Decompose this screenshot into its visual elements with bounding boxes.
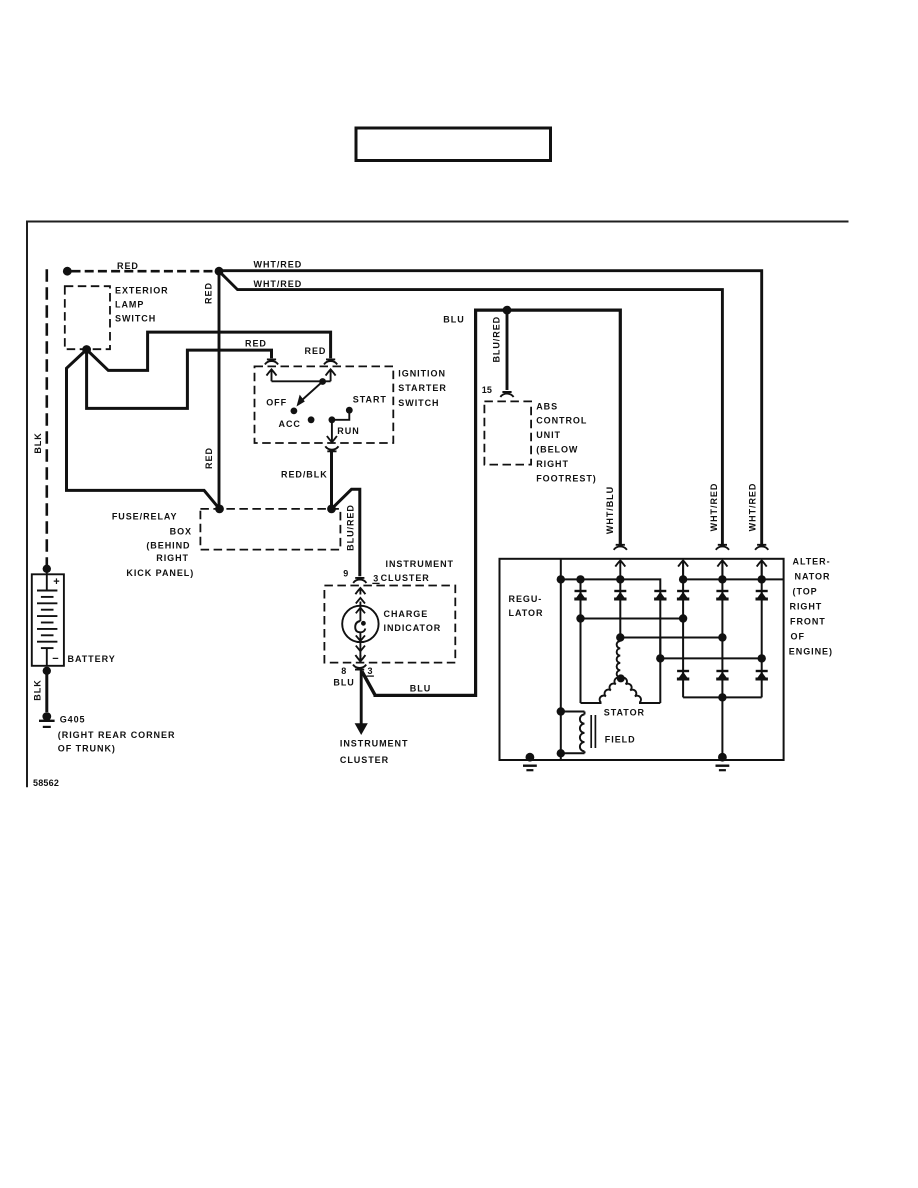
wire BLK battery negative [43, 667, 51, 712]
svg-text:RED: RED [305, 346, 327, 356]
connector hook ign input [324, 359, 337, 364]
wire regulator rail [560, 559, 562, 760]
svg-text:RIGHT: RIGHT [156, 553, 189, 563]
label RUN [337, 426, 359, 436]
wire stator right lead [639, 702, 660, 704]
wire branch A [580, 579, 582, 703]
arrow ign input [326, 369, 336, 381]
wire RED to ignition switch battery contact (upper) [87, 332, 331, 370]
svg-text:INSTRUMENT: INSTRUMENT [340, 739, 409, 749]
pin 15 label [482, 385, 492, 395]
svg-text:BATTERY: BATTERY [68, 654, 116, 664]
pin 3 label lower (underlined) [367, 666, 374, 676]
wire BLK dashed (battery to junction) [45, 269, 48, 566]
svg-text:STARTER: STARTER [398, 383, 446, 393]
field coil [561, 712, 585, 754]
contact RUN [329, 416, 336, 423]
svg-text:BLU/RED: BLU/RED [492, 316, 502, 363]
wire BLU (cluster pin 3 to alternator) [362, 310, 620, 695]
svg-text:UNIT: UNIT [536, 430, 561, 440]
svg-text:INSTRUMENT: INSTRUMENT [386, 559, 455, 569]
arrow acc input [267, 369, 277, 381]
wire RED/BLK [330, 451, 333, 509]
svg-text:+: + [53, 576, 59, 588]
ground G405 [39, 712, 55, 727]
wire output bus right (top) [683, 578, 784, 580]
connector hook cluster pin 3 [353, 578, 366, 583]
diagram number 58562 [33, 778, 59, 788]
wire branch E [721, 560, 723, 753]
svg-text:WHT/RED: WHT/RED [747, 483, 757, 532]
svg-text:−: − [52, 653, 58, 665]
wire switch crossbar [272, 380, 331, 382]
svg-text:WHT/RED: WHT/RED [254, 279, 303, 289]
svg-text:RED/BLK: RED/BLK [281, 469, 328, 479]
charge indicator lamp circle [342, 606, 378, 642]
label BATTERY [68, 654, 116, 664]
label ALTERNATOR (TOP RIGHT FRONT OF ENGINE) [789, 556, 833, 656]
svg-text:OFF: OFF [266, 397, 287, 407]
svg-text:REGU-: REGU- [509, 594, 543, 604]
node bus4 F [758, 654, 766, 662]
label WHT/RED (right riser) [747, 483, 757, 532]
pin 9 label [343, 569, 348, 579]
node bus2 A [576, 614, 584, 622]
diode F2 (exciter) [756, 671, 768, 679]
node BLU/RED tap [503, 306, 512, 315]
node switch pivot [319, 378, 326, 385]
diode C (positive) [654, 591, 666, 599]
label G405 (RIGHT REAR CORNER OF TRUNK) [58, 715, 176, 754]
svg-text:ALTER-: ALTER- [793, 556, 831, 566]
svg-text:FUSE/RELAY: FUSE/RELAY [112, 512, 178, 522]
diode D2 (exciter) [677, 671, 689, 679]
arrow cluster output [355, 655, 365, 661]
svg-text:3: 3 [368, 666, 373, 676]
node fuse box left feed [215, 505, 224, 514]
svg-text:FOOTREST): FOOTREST) [536, 473, 597, 483]
page border [27, 222, 849, 788]
node rail-bus [557, 575, 565, 583]
label ABS CONTROL UNIT (BELOW RIGHT FOOTREST) [536, 401, 597, 483]
svg-text:IGNITION: IGNITION [398, 368, 446, 378]
flow chevron down 2 [356, 646, 365, 652]
svg-text:8: 8 [341, 666, 346, 676]
label BLU (below pin 8) [333, 678, 354, 688]
label BLK (lower) [33, 679, 43, 700]
label INSTRUMENT CLUSTER (component name) [381, 559, 454, 583]
svg-text:LAMP: LAMP [115, 300, 144, 310]
node bus4 C [656, 654, 664, 662]
wire BLU/RED (to instrument cluster pin 3) [332, 489, 360, 576]
svg-text:KICK PANEL): KICK PANEL) [126, 568, 194, 578]
svg-text:WHT/RED: WHT/RED [254, 260, 303, 270]
svg-text:ACC: ACC [279, 419, 301, 429]
svg-text:58562: 58562 [33, 778, 59, 788]
label BLK (upper) [33, 432, 43, 453]
wire WHT/RED lower (to alternator middle branch) [219, 271, 722, 545]
node fuse box right feed [327, 505, 336, 514]
svg-text:INDICATOR: INDICATOR [384, 623, 442, 633]
svg-text:OF: OF [791, 631, 805, 641]
field core lines [591, 715, 595, 748]
node bus3 B [616, 633, 624, 641]
label CHARGE INDICATOR [384, 609, 442, 633]
wire RED to ignition switch acc contact (lower) [87, 350, 272, 409]
label INSTRUMENT CLUSTER (off-page destination) [340, 739, 409, 765]
arrow alternator input F [757, 560, 767, 579]
node field bottom [557, 749, 565, 757]
svg-text:RED: RED [117, 261, 139, 271]
battery plates [37, 591, 57, 666]
node bus F [758, 575, 766, 583]
svg-text:RED: RED [204, 447, 214, 469]
wire bus A-D [581, 618, 684, 620]
svg-text:ENGINE): ENGINE) [789, 646, 833, 656]
arrow cluster input [355, 588, 365, 595]
svg-text:START: START [353, 395, 387, 405]
battery box [32, 569, 64, 666]
svg-text:(RIGHT REAR CORNER: (RIGHT REAR CORNER [58, 730, 176, 740]
svg-text:BLU: BLU [410, 683, 431, 693]
svg-text:CLUSTER: CLUSTER [381, 573, 430, 583]
contact START [346, 407, 353, 414]
svg-text:BLU: BLU [443, 315, 464, 325]
connector hook alternator WHT/RED right [755, 545, 768, 550]
label OFF [266, 397, 287, 407]
connector hook alternator WHT/BLU [614, 545, 627, 550]
diode B (positive) [614, 591, 626, 599]
label ACC [279, 419, 301, 429]
flow chevron down 1 (inside lamp) [356, 635, 365, 641]
wire to fuse/relay box (left) [67, 350, 220, 509]
node battery positive splice [43, 565, 51, 573]
ground (alternator case) [716, 753, 730, 770]
alternator box [500, 559, 784, 760]
label RED (acc feed) [245, 338, 267, 348]
wire lamp lead upper [359, 602, 361, 622]
svg-text:BLU/RED: BLU/RED [345, 504, 355, 551]
svg-text:CLUSTER: CLUSTER [340, 755, 389, 765]
contact OFF [291, 408, 298, 415]
wire branch B [619, 579, 621, 637]
wire stator bus left (top) [561, 579, 661, 658]
svg-text:WHT/BLU: WHT/BLU [605, 486, 615, 534]
svg-text:EXTERIOR: EXTERIOR [115, 286, 169, 296]
stator coil right [621, 678, 641, 703]
wire bus C-F [660, 657, 761, 659]
wire branch F [761, 560, 763, 697]
svg-text:BLK: BLK [33, 679, 43, 700]
node bus3 E [718, 633, 726, 641]
connector hook acc input [265, 359, 278, 364]
fuse/relay box [200, 509, 340, 550]
label FIELD [605, 735, 636, 745]
wire bottom bus D-F [683, 696, 762, 698]
wire bus B-E [620, 637, 722, 639]
wire lamp lead lower [359, 632, 361, 662]
arrow alternator input D [678, 560, 688, 579]
node bus2 D [679, 614, 687, 622]
ignition starter switch box [255, 366, 394, 443]
node splice at dashed RED wire left end [63, 267, 72, 276]
node bus B [616, 575, 624, 583]
connector hook cluster pin 8 [353, 665, 366, 670]
label BLU (horizontal run) [410, 683, 431, 693]
node bus D [679, 575, 687, 583]
flow chevron up 2 [356, 598, 365, 604]
label START [353, 395, 387, 405]
connector hook run output [325, 446, 338, 451]
svg-text:(TOP: (TOP [793, 586, 818, 596]
arrow alternator input B [615, 560, 625, 579]
svg-text:9: 9 [343, 569, 348, 579]
diode D (positive) [677, 591, 689, 599]
label EXTERIOR LAMP SWITCH [115, 286, 169, 324]
svg-text:NATOR: NATOR [795, 571, 831, 581]
svg-text:WHT/RED: WHT/RED [709, 483, 719, 532]
svg-text:RIGHT: RIGHT [536, 459, 569, 469]
wire stator left lead [581, 702, 602, 704]
svg-text:BLU: BLU [333, 678, 354, 688]
svg-text:15: 15 [482, 385, 492, 395]
switch lever with arrowhead [297, 382, 323, 407]
svg-text:RED: RED [245, 338, 267, 348]
label IGNITION STARTER SWITCH [398, 368, 446, 408]
connector hook alternator WHT/RED middle [716, 545, 729, 550]
svg-text:BLK: BLK [33, 432, 43, 453]
label BLU/RED (cluster) [345, 504, 355, 551]
wire branch D [682, 560, 684, 697]
battery polarity marks [52, 576, 59, 665]
label RED (vertical upper) [204, 282, 214, 304]
node bus A [576, 575, 584, 583]
label WHT/RED (lower) [254, 279, 303, 289]
diode E2 (exciter) [716, 671, 728, 679]
label WHT/RED (upper) [254, 260, 303, 270]
svg-text:ABS: ABS [536, 401, 558, 411]
svg-text:LATOR: LATOR [509, 608, 544, 618]
wire START to RUN [332, 410, 349, 420]
label RED (ign feed) [305, 346, 327, 356]
ground (regulator, inside alternator) [523, 753, 537, 770]
node stator center [617, 674, 625, 682]
pin 8 label [341, 666, 346, 676]
wire WHT/RED upper (to alternator right branch) [219, 271, 762, 545]
label WHT/RED (middle riser) [709, 483, 719, 532]
contact ACC [308, 416, 315, 423]
wire RED vertical (to fuse/relay box) [218, 271, 221, 509]
svg-text:RIGHT: RIGHT [790, 601, 823, 611]
svg-text:(BEHIND: (BEHIND [146, 540, 190, 550]
node field top [557, 707, 565, 715]
wire BLU/RED to ABS pin 15 [506, 310, 509, 390]
label WHT/BLU [605, 486, 615, 534]
svg-text:FIELD: FIELD [605, 735, 636, 745]
stator coil left [600, 678, 621, 703]
pin 3 label (underlined) [372, 574, 379, 584]
svg-text:BOX: BOX [170, 526, 192, 536]
label FUSE/RELAY BOX (BEHIND RIGHT KICK PANEL) [112, 512, 194, 578]
diode F (positive) [756, 591, 768, 599]
diode E (positive) [716, 591, 728, 599]
ABS control unit box [484, 401, 531, 464]
svg-text:SWITCH: SWITCH [115, 314, 156, 324]
node bus E [718, 575, 726, 583]
svg-text:(BELOW: (BELOW [536, 445, 578, 455]
label REGULATOR [509, 594, 544, 618]
svg-text:G405: G405 [60, 715, 86, 725]
diode A (positive) [574, 591, 586, 599]
instrument cluster box [324, 586, 455, 663]
wire RED dashed [72, 270, 220, 273]
label RED (dashed wire) [117, 261, 139, 271]
connector hook ABS pin 15 [500, 392, 513, 397]
svg-text:CONTROL: CONTROL [536, 416, 587, 426]
svg-text:RUN: RUN [337, 426, 359, 436]
svg-text:STATOR: STATOR [604, 707, 645, 717]
svg-text:CHARGE: CHARGE [384, 609, 429, 619]
svg-text:SWITCH: SWITCH [398, 398, 439, 408]
stator coil vertical [617, 641, 621, 677]
label BLU/RED (ABS) [492, 316, 502, 363]
exterior lamp switch box [65, 286, 110, 349]
node junction RED / WHT-RED [215, 267, 224, 276]
svg-text:FRONT: FRONT [790, 616, 826, 626]
svg-text:RED: RED [204, 282, 214, 304]
label RED/BLK [281, 469, 328, 479]
flow chevron up 3 (inside lamp) [356, 608, 365, 614]
label RED (vertical lower) [204, 447, 214, 469]
title box [356, 128, 551, 161]
lamp filament loop [355, 621, 366, 632]
arrow alternator input E [717, 560, 727, 579]
svg-text:OF TRUNK): OF TRUNK) [58, 744, 116, 754]
label STATOR [604, 707, 645, 717]
node bottom bus E [718, 693, 726, 701]
wire BLU to instrument cluster (off-page) [355, 671, 368, 736]
wire branch C lower [659, 639, 661, 704]
node exterior lamp switch splice [82, 345, 91, 354]
arrow run output [327, 420, 337, 442]
label BLU (vertical riser) [443, 315, 464, 325]
svg-text:3: 3 [373, 574, 378, 584]
